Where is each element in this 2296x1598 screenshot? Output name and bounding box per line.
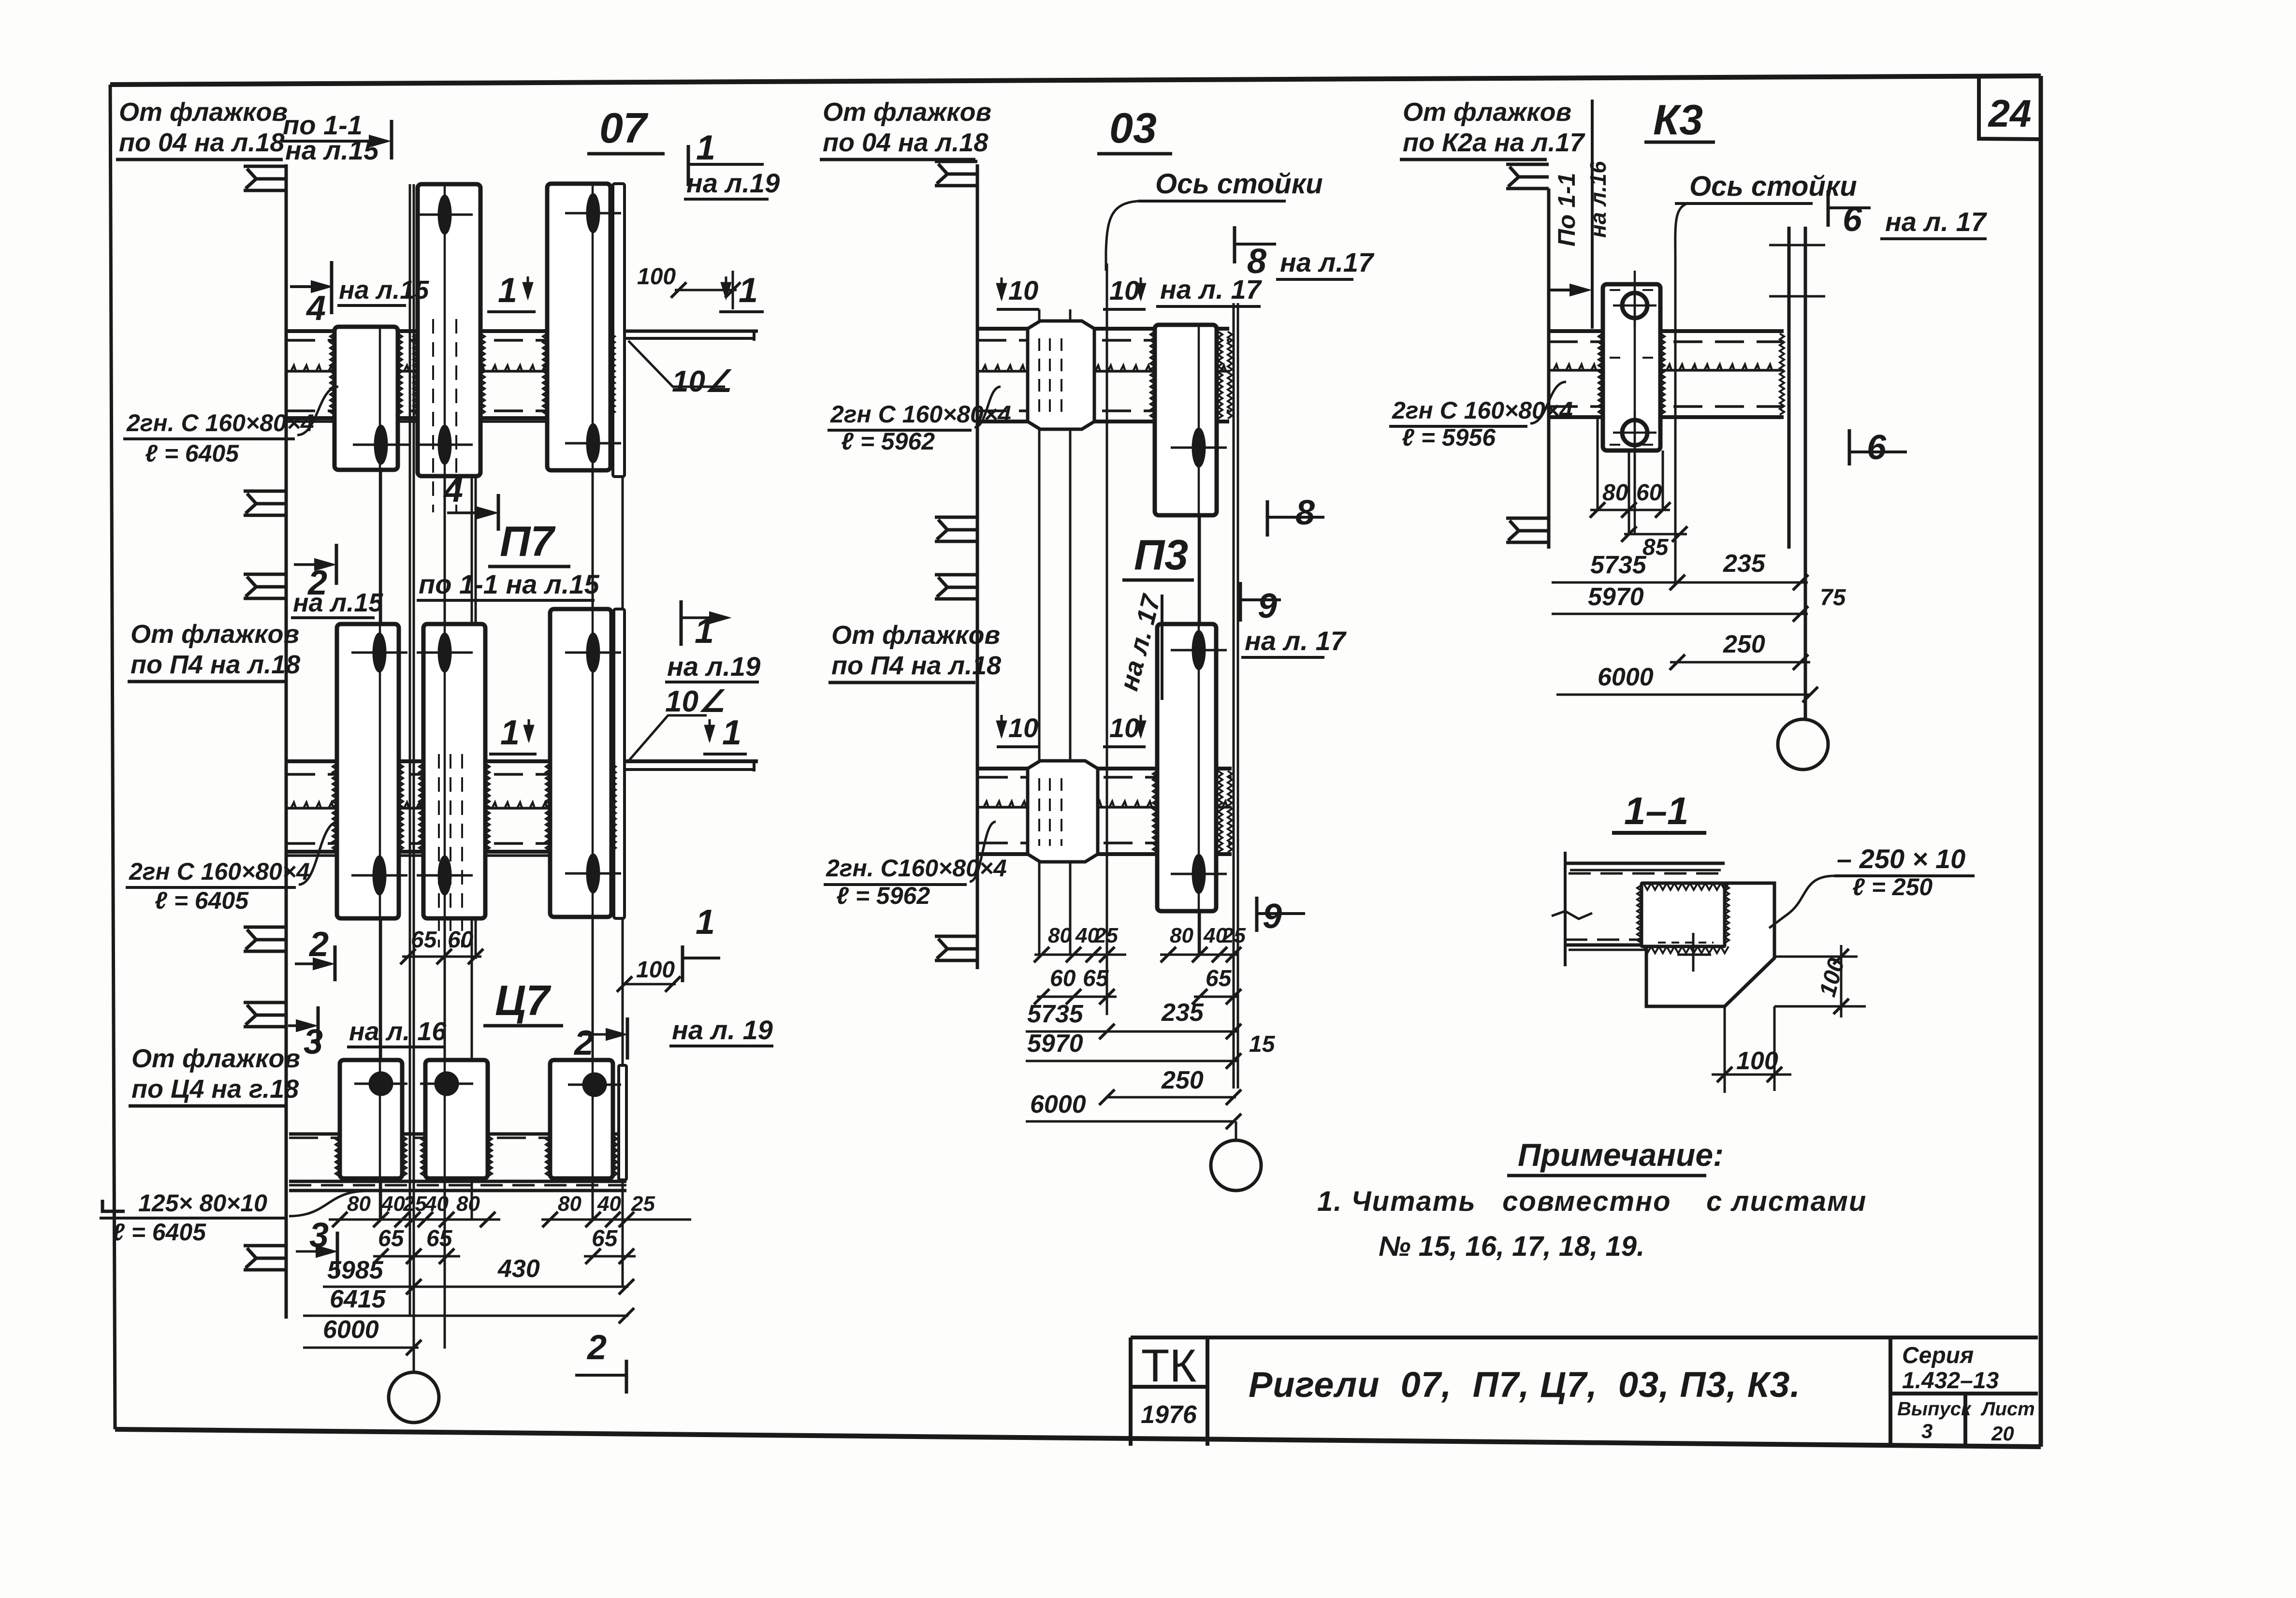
svg-text:От флажков: От флажков bbox=[823, 98, 991, 127]
svg-text:ℓ = 6405: ℓ = 6405 bbox=[155, 887, 249, 914]
svg-text:на л. 16: на л. 16 bbox=[349, 1017, 447, 1046]
svg-text:2: 2 bbox=[573, 1024, 594, 1062]
svg-text:10: 10 bbox=[1109, 275, 1139, 305]
svg-text:80: 80 bbox=[1602, 480, 1628, 506]
svg-text:03: 03 bbox=[1109, 104, 1157, 152]
svg-text:5985: 5985 bbox=[327, 1256, 384, 1284]
svg-text:по К2а на л.17: по К2а на л.17 bbox=[1403, 128, 1586, 157]
svg-text:Ось стойки: Ось стойки bbox=[1155, 168, 1323, 200]
svg-text:1. Читать совместно с лис: 1. Читать совместно с листами bbox=[1317, 1186, 1867, 1217]
svg-text:ℓ = 5962: ℓ = 5962 bbox=[836, 882, 930, 909]
svg-text:От флажков: От флажков bbox=[831, 621, 1000, 650]
svg-text:25: 25 bbox=[1221, 924, 1246, 947]
svg-text:40: 40 bbox=[597, 1192, 621, 1216]
svg-text:25: 25 bbox=[403, 1192, 427, 1216]
svg-text:15: 15 bbox=[1249, 1031, 1276, 1057]
svg-text:4: 4 bbox=[305, 289, 326, 328]
svg-text:5735: 5735 bbox=[1027, 1000, 1084, 1028]
svg-text:ℓ = 6405: ℓ = 6405 bbox=[112, 1219, 206, 1246]
svg-text:1: 1 bbox=[500, 713, 520, 752]
svg-text:на л. 19: на л. 19 bbox=[672, 1015, 773, 1045]
svg-text:25: 25 bbox=[631, 1192, 655, 1216]
svg-text:10∠: 10∠ bbox=[665, 685, 726, 718]
svg-text:80: 80 bbox=[1170, 924, 1193, 947]
svg-text:8: 8 bbox=[1295, 494, 1315, 532]
svg-text:235: 235 bbox=[1161, 999, 1204, 1027]
svg-text:8: 8 bbox=[1247, 242, 1266, 281]
svg-text:по 04 на л.18: по 04 на л.18 bbox=[823, 128, 988, 157]
svg-text:6415: 6415 bbox=[330, 1285, 386, 1313]
svg-text:5970: 5970 bbox=[1027, 1030, 1083, 1058]
svg-text:2: 2 bbox=[308, 925, 329, 964]
svg-text:85: 85 bbox=[1642, 535, 1669, 560]
svg-text:100: 100 bbox=[636, 957, 675, 983]
svg-text:Выпуск: Выпуск bbox=[1897, 1398, 1972, 1420]
svg-text:6: 6 bbox=[1843, 200, 1862, 239]
svg-text:65: 65 bbox=[411, 927, 437, 953]
svg-text:1: 1 bbox=[498, 271, 517, 310]
svg-text:5735: 5735 bbox=[1590, 551, 1647, 579]
svg-text:От флажков: От флажков bbox=[131, 620, 299, 649]
svg-text:1976: 1976 bbox=[1141, 1401, 1197, 1429]
svg-text:80: 80 bbox=[456, 1192, 480, 1216]
svg-text:П7: П7 bbox=[500, 517, 556, 565]
svg-text:по П4 на л.18: по П4 на л.18 bbox=[831, 651, 1001, 680]
svg-text:9: 9 bbox=[1258, 587, 1277, 625]
svg-text:1–1: 1–1 bbox=[1624, 789, 1688, 832]
svg-text:Примечание:: Примечание: bbox=[1518, 1137, 1724, 1173]
svg-text:60: 60 bbox=[448, 927, 474, 953]
svg-text:10∠: 10∠ bbox=[672, 365, 732, 398]
svg-text:на л. 17: на л. 17 bbox=[1885, 206, 1988, 237]
svg-text:65: 65 bbox=[378, 1226, 405, 1251]
svg-text:25: 25 bbox=[1094, 924, 1118, 947]
svg-text:40: 40 bbox=[381, 1192, 405, 1216]
svg-text:Серия: Серия bbox=[1902, 1343, 1974, 1368]
svg-text:на л.16: на л.16 bbox=[1585, 161, 1611, 238]
svg-text:Ригели 07, П7, Ц7, 03, П3,: Ригели 07, П7, Ц7, 03, П3, К3. bbox=[1249, 1365, 1801, 1405]
svg-text:10: 10 bbox=[1008, 712, 1038, 743]
svg-text:1: 1 bbox=[739, 271, 758, 310]
svg-text:по Ц4 на г.18: по Ц4 на г.18 bbox=[131, 1075, 299, 1104]
svg-text:65: 65 bbox=[426, 1226, 453, 1251]
svg-text:250: 250 bbox=[1161, 1066, 1204, 1094]
svg-text:№ 15, 16, 17, 18, 19.: № 15, 16, 17, 18, 19. bbox=[1379, 1231, 1644, 1262]
svg-text:60: 60 bbox=[1050, 966, 1076, 991]
svg-text:Лист: Лист bbox=[1980, 1398, 2035, 1420]
svg-text:От флажков: От флажков bbox=[131, 1044, 300, 1073]
svg-text:Ц7: Ц7 bbox=[495, 976, 552, 1024]
svg-text:– 250 × 10: – 250 × 10 bbox=[1837, 843, 1965, 874]
svg-text:6000: 6000 bbox=[323, 1316, 379, 1344]
svg-text:1: 1 bbox=[695, 612, 714, 651]
svg-text:на л. 17: на л. 17 bbox=[1245, 625, 1347, 656]
svg-text:125× 80×10: 125× 80×10 bbox=[138, 1190, 267, 1217]
svg-text:65: 65 bbox=[1083, 966, 1109, 991]
svg-text:на л.15: на л.15 bbox=[285, 135, 379, 165]
svg-text:1.432–13: 1.432–13 bbox=[1902, 1368, 1999, 1394]
svg-text:Ось стойки: Ось стойки bbox=[1689, 171, 1857, 202]
svg-text:1: 1 bbox=[696, 129, 715, 167]
svg-text:на л.15: на л.15 bbox=[293, 588, 383, 617]
svg-text:По 1-1: По 1-1 bbox=[1553, 173, 1580, 247]
svg-text:4: 4 bbox=[443, 471, 463, 509]
svg-text:65: 65 bbox=[592, 1226, 618, 1251]
svg-text:1: 1 bbox=[722, 713, 741, 752]
svg-text:430: 430 bbox=[497, 1255, 540, 1283]
svg-text:10: 10 bbox=[1008, 275, 1038, 305]
svg-text:От флажков: От флажков bbox=[119, 98, 288, 127]
svg-text:От флажков: От флажков bbox=[1403, 98, 1571, 127]
svg-text:65: 65 bbox=[1206, 966, 1232, 991]
svg-text:100: 100 bbox=[637, 264, 676, 290]
svg-text:К3: К3 bbox=[1653, 96, 1703, 144]
svg-text:по 04 на л.18: по 04 на л.18 bbox=[119, 128, 284, 157]
svg-text:ℓ = 6405: ℓ = 6405 bbox=[145, 440, 239, 467]
svg-text:на л.19: на л.19 bbox=[667, 651, 760, 682]
svg-text:24: 24 bbox=[1988, 92, 2032, 135]
svg-text:ТК: ТК bbox=[1141, 1340, 1197, 1392]
svg-text:на л.17: на л.17 bbox=[1280, 247, 1375, 277]
svg-text:5970: 5970 bbox=[1588, 583, 1644, 611]
svg-text:на л.15: на л.15 bbox=[339, 276, 429, 305]
svg-text:6000: 6000 bbox=[1598, 663, 1654, 691]
svg-text:40: 40 bbox=[424, 1192, 449, 1216]
svg-text:100: 100 bbox=[1736, 1047, 1778, 1075]
svg-text:250: 250 bbox=[1723, 630, 1765, 658]
svg-text:6: 6 bbox=[1867, 428, 1887, 467]
svg-text:на л.19: на л.19 bbox=[686, 168, 780, 198]
svg-text:П3: П3 bbox=[1134, 531, 1188, 579]
svg-text:1: 1 bbox=[696, 903, 715, 942]
svg-text:20: 20 bbox=[1991, 1422, 2014, 1445]
svg-text:60: 60 bbox=[1636, 480, 1662, 506]
svg-text:235: 235 bbox=[1723, 550, 1766, 578]
svg-text:ℓ = 5962: ℓ = 5962 bbox=[841, 428, 935, 455]
svg-text:9: 9 bbox=[1263, 897, 1282, 936]
svg-text:6000: 6000 bbox=[1030, 1090, 1086, 1119]
svg-text:75: 75 bbox=[1820, 585, 1846, 610]
svg-text:по П4 на л.18: по П4 на л.18 bbox=[131, 650, 300, 679]
svg-text:80: 80 bbox=[558, 1192, 581, 1216]
svg-text:80: 80 bbox=[347, 1192, 371, 1216]
svg-text:80: 80 bbox=[1048, 924, 1072, 947]
svg-text:2: 2 bbox=[586, 1328, 607, 1367]
svg-text:2гн С 160×80×4: 2гн С 160×80×4 bbox=[129, 858, 310, 885]
svg-text:07: 07 bbox=[599, 104, 649, 152]
svg-text:ℓ = 5956: ℓ = 5956 bbox=[1402, 424, 1496, 451]
svg-text:2гн. С 160×80×4: 2гн. С 160×80×4 bbox=[126, 409, 314, 436]
svg-text:ℓ = 250: ℓ = 250 bbox=[1852, 873, 1933, 901]
svg-text:3: 3 bbox=[1921, 1420, 1933, 1442]
svg-text:10: 10 bbox=[1109, 712, 1139, 743]
